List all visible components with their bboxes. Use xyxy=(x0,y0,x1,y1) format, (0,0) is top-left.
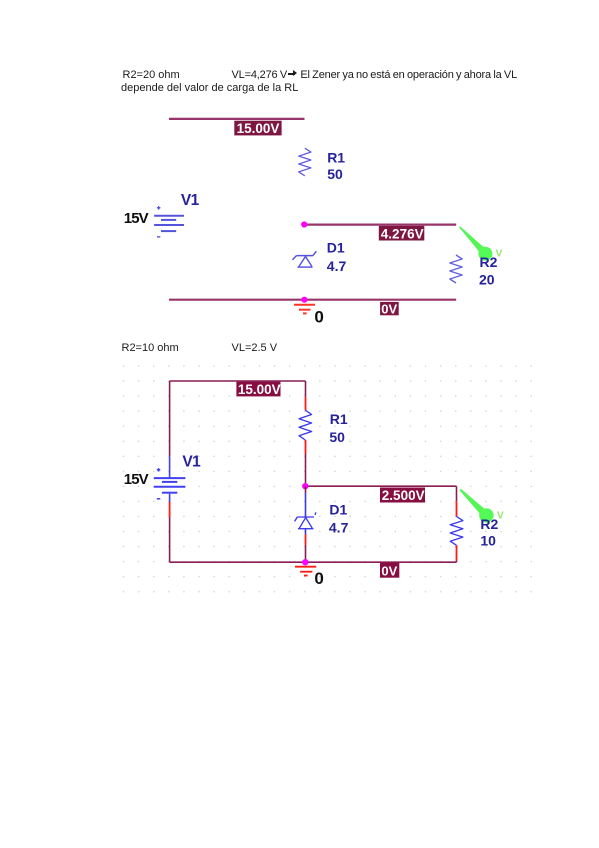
svg-text:4.7: 4.7 xyxy=(327,258,347,274)
node middle c2 xyxy=(302,483,308,489)
paragraph line 2 xyxy=(121,82,298,94)
pin R1 bottom red c2 xyxy=(305,440,307,454)
wire D1 to ground node c2 xyxy=(305,545,307,562)
value 4.7 c1 xyxy=(327,258,347,274)
wire middle c1 xyxy=(304,224,456,226)
value 50 c2 xyxy=(329,429,345,445)
svg-text:2.500V: 2.500V xyxy=(382,488,425,503)
pin R2 top red c2 xyxy=(456,501,458,516)
value 15V c2 xyxy=(124,471,149,488)
battery V1 c1 xyxy=(154,206,184,237)
paragraph line 1 left xyxy=(123,69,180,81)
wire left vertical upper c2 xyxy=(169,381,171,456)
voltage label 2.500V c2 xyxy=(380,488,425,504)
svg-text:R2: R2 xyxy=(480,516,498,532)
wire R1 column upper c2 xyxy=(305,381,307,397)
label R1 c1 xyxy=(327,149,345,165)
battery lead top c2 xyxy=(169,456,171,477)
battery lead bottom c2 xyxy=(169,494,171,502)
value 4.7 c2 xyxy=(329,520,349,536)
probe marker V c1 xyxy=(459,226,503,260)
ground c2 xyxy=(295,567,316,576)
svg-text:0: 0 xyxy=(314,569,323,588)
voltage label 0V c2 xyxy=(380,563,399,579)
value 10 c2 xyxy=(480,533,496,549)
resistor R1 c1 xyxy=(299,148,311,176)
label D1 c2 xyxy=(329,502,347,518)
svg-text:0V: 0V xyxy=(381,301,397,316)
pin R1 top red c2 xyxy=(305,397,307,410)
node label 0 c1 xyxy=(314,307,323,326)
zener diode D1 c2 xyxy=(295,512,316,528)
node middle c1 xyxy=(301,221,307,227)
svg-text:R1: R1 xyxy=(330,411,348,427)
svg-text:R2: R2 xyxy=(480,254,498,270)
svg-text:15V: 15V xyxy=(124,210,149,227)
label V1 c2 xyxy=(182,454,201,471)
svg-text:20: 20 xyxy=(479,272,495,288)
ground c1 xyxy=(294,305,315,314)
voltage label 0V c1 xyxy=(380,301,399,316)
label V1 c1 xyxy=(181,192,200,209)
lead D1 bottom c2 xyxy=(305,529,307,535)
value 15V c1 xyxy=(124,210,149,227)
lead D1 top c2 xyxy=(305,493,307,517)
svg-text:15V: 15V xyxy=(124,471,149,488)
svg-text:15.00V: 15.00V xyxy=(237,121,280,136)
svg-text:15.00V: 15.00V xyxy=(238,382,281,397)
wire bottom c2 xyxy=(170,561,457,563)
wire R1 to node c2 xyxy=(305,454,307,486)
wire top c1 xyxy=(169,118,305,120)
wire top c2 xyxy=(170,380,306,382)
svg-text:V1: V1 xyxy=(182,454,201,471)
pin D1 bottom red c2 xyxy=(305,535,307,546)
label R2 c2 xyxy=(480,516,498,532)
svg-text:D1: D1 xyxy=(327,240,345,256)
voltage label 15.00V c2 xyxy=(236,382,280,398)
resistor R2 c1 xyxy=(450,255,462,283)
wire D1 column upper c2 xyxy=(305,486,307,493)
voltage label 4.276V c1 xyxy=(379,226,425,242)
paragraph line 3 right xyxy=(232,342,278,354)
svg-text:R1: R1 xyxy=(327,149,345,165)
label R2 c1 xyxy=(480,254,498,270)
svg-text:V1: V1 xyxy=(181,192,200,209)
probe marker V c2 xyxy=(460,489,505,523)
wire right vertical upper c2 xyxy=(456,486,458,501)
voltage label 15.00V c1 xyxy=(234,121,281,136)
node ground c2 xyxy=(302,559,308,565)
battery V1 c2 xyxy=(154,468,186,499)
svg-text:10: 10 xyxy=(480,533,496,549)
wire left vertical lower c2 xyxy=(169,517,171,562)
pin R2 bottom red c2 xyxy=(456,545,458,560)
node ground c1 xyxy=(301,297,307,303)
zener diode D1 c1 xyxy=(292,251,316,267)
wire right vertical lower c2 xyxy=(456,561,458,563)
wire middle c2 xyxy=(306,485,457,487)
paragraph line 1 right xyxy=(232,69,518,81)
svg-text:4.276V: 4.276V xyxy=(381,226,424,241)
value 50 c1 xyxy=(327,166,343,182)
label R1 c2 xyxy=(330,411,348,427)
svg-text:0V: 0V xyxy=(381,563,397,578)
svg-text:4.7: 4.7 xyxy=(329,520,349,536)
svg-text:50: 50 xyxy=(329,429,345,445)
svg-text:0: 0 xyxy=(314,307,323,326)
node label 0 c2 xyxy=(314,569,323,588)
resistor R1 c2 xyxy=(299,410,312,440)
svg-text:D1: D1 xyxy=(329,502,347,518)
svg-text:50: 50 xyxy=(327,166,343,182)
label D1 c1 xyxy=(327,240,345,256)
wire bottom c1 xyxy=(169,299,456,301)
paragraph line 3 left xyxy=(122,342,179,354)
pin V1 bottom red c2 xyxy=(169,502,171,517)
value 20 c1 xyxy=(479,272,495,288)
resistor R2 c2 xyxy=(450,517,463,546)
